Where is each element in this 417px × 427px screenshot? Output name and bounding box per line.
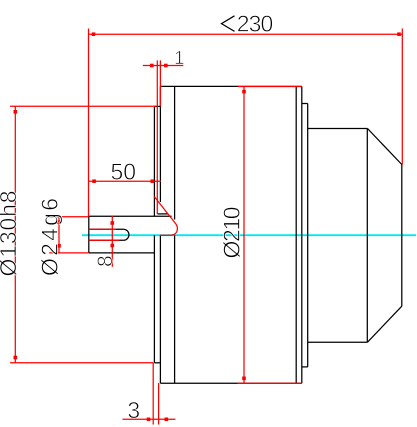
dimension 3	[123, 363, 176, 425]
motor body outline	[160, 86, 301, 383]
dimension D130h8	[0, 106, 156, 363]
dimension 50	[89, 159, 162, 185]
svg-text:Ø24g6: Ø24g6	[37, 198, 63, 276]
rear seam	[295, 86, 297, 383]
svg-text:3: 3	[127, 397, 140, 423]
keyway	[89, 229, 129, 240]
dimension 230	[89, 11, 403, 217]
svg-text:8: 8	[94, 255, 117, 267]
svg-text:230: 230	[237, 11, 273, 37]
break line	[154, 197, 177, 236]
rear housing	[308, 129, 402, 343]
dimension 8 keyway	[89, 216, 120, 268]
bore line	[158, 213, 168, 215]
svg-text:50: 50	[111, 159, 137, 185]
dimension D210	[219, 87, 302, 384]
shaft	[89, 216, 172, 253]
svg-text:1: 1	[174, 48, 185, 69]
centerline	[82, 234, 416, 236]
dimension 1	[143, 48, 185, 214]
svg-text:Ø210: Ø210	[219, 207, 245, 259]
dimension D24g6	[37, 198, 89, 276]
svg-text:Ø130h8: Ø130h8	[0, 191, 21, 277]
flange front face	[159, 86, 161, 383]
rear plate	[302, 104, 308, 367]
spigot boss	[154, 106, 160, 362]
front bell seam	[174, 86, 176, 383]
